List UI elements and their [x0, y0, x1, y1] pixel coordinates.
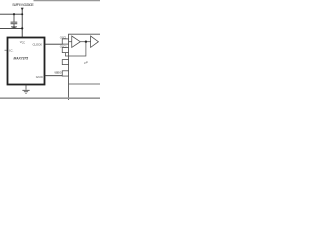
svg-text:SUPPLY VOLTAGE: SUPPLY VOLTAGE: [12, 3, 34, 7]
node junction dot between inverters: [85, 41, 87, 43]
wire lower horizontal: [0, 27, 22, 31]
inverter buffer B: [91, 36, 99, 47]
ground bar under capacitor: [11, 25, 17, 28]
wire inverter A to inverter B: [80, 40, 90, 43]
wire GND to VSS pin: [45, 74, 63, 77]
ground symbol below chip stem: [25, 85, 28, 90]
pin box OSC2: [62, 48, 68, 53]
top page rule: [34, 0, 101, 3]
svg-text:VSS/GND: VSS/GND: [54, 71, 61, 74]
capacitor C1 stem: [12, 14, 15, 22]
background: [0, 0, 100, 100]
inverter buffer A: [72, 36, 81, 47]
node junction dot at supply/top wire: [21, 13, 23, 15]
svg-text:CLOCK: CLOCK: [33, 42, 43, 46]
wire supply vertical: [20, 8, 24, 38]
microprocessor box: [69, 34, 102, 100]
pin box VSS: [62, 71, 68, 76]
wire OSC1 pin to inverter A: [69, 40, 73, 43]
pin box OSC1: [62, 39, 68, 44]
ground symbol bars: [22, 89, 29, 92]
svg-text:MAX7375: MAX7375: [14, 56, 29, 60]
pin tick I.C.: [5, 49, 7, 52]
svg-text:I.C.: I.C.: [9, 48, 14, 52]
capacitor lower stem: [12, 24, 15, 27]
wire CLOCK to OSC1 pin: [45, 43, 64, 46]
node junction dot lower wire: [21, 27, 23, 29]
supply entry arrowhead: [21, 8, 24, 11]
wire top horizontal to capacitor: [0, 12, 22, 16]
node junction dot at cap branch: [13, 13, 15, 15]
feedback wire to OSC2: [65, 42, 86, 56]
bottom rule: [0, 95, 100, 102]
svg-text:GND: GND: [36, 75, 44, 79]
chip box MAX7375: [8, 38, 45, 85]
capacitor C1 plates: [11, 20, 18, 23]
pin box 3: [62, 60, 68, 65]
